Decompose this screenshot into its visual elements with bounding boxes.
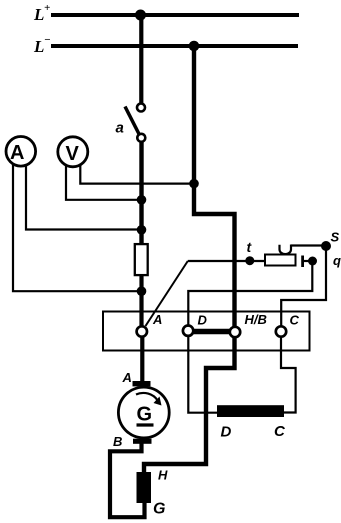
wire t line <box>188 260 265 262</box>
terminal board (clamp strip) <box>103 312 310 351</box>
clamp terminal D <box>183 326 193 336</box>
svg-text:q: q <box>333 253 341 268</box>
ammeter A <box>6 137 36 167</box>
bar D to H/B <box>192 329 230 335</box>
svg-text:C: C <box>274 423 286 440</box>
wire H/B down to element H <box>144 337 235 473</box>
svg-text:G: G <box>153 501 165 518</box>
svg-text:H: H <box>158 468 168 483</box>
resistor (starting resistor) <box>135 244 148 275</box>
element H-G (brake magnet) <box>137 472 152 503</box>
node t <box>245 256 254 265</box>
node S <box>321 241 331 251</box>
net L- label <box>33 34 51 56</box>
svg-text:−: − <box>44 34 51 46</box>
junction main line node 1 <box>137 195 147 205</box>
clamp terminal A <box>137 326 147 336</box>
contact q fixed bar <box>301 256 304 268</box>
wire L- bus <box>51 44 298 48</box>
svg-text:A: A <box>10 142 24 164</box>
clamp terminal H/B <box>230 327 240 337</box>
junction V wire / L- branch <box>189 179 199 189</box>
svg-text:G: G <box>137 404 153 426</box>
voltmeter V <box>58 137 88 167</box>
svg-text:A: A <box>122 370 132 385</box>
clamp terminal C <box>276 326 286 336</box>
svg-text:V: V <box>66 143 80 165</box>
wire switch to resistor <box>139 142 143 244</box>
svg-text:A: A <box>152 312 162 327</box>
svg-text:S: S <box>331 230 340 245</box>
wire clamp A to motor brush <box>140 336 144 382</box>
svg-text:H/B: H/B <box>245 312 267 327</box>
wire contact to clamp D <box>188 261 312 326</box>
wire L+ bus <box>51 13 299 17</box>
wire L- down right branch <box>194 46 235 327</box>
field winding D-C <box>217 405 284 417</box>
wire S to clamp C <box>281 246 326 326</box>
junction main line node 2 <box>137 225 147 235</box>
wire V right terminal to L- branch <box>80 165 194 184</box>
svg-text:D: D <box>198 313 208 328</box>
svg-text:L: L <box>33 5 44 24</box>
junction on L+ <box>135 10 146 21</box>
junction on L- <box>189 41 200 52</box>
wire motor B loop to element G <box>110 443 145 517</box>
switch a <box>116 104 146 142</box>
wire notch to S <box>291 244 326 246</box>
svg-text:D: D <box>221 424 232 441</box>
wire V left terminal to main line <box>66 165 142 200</box>
svg-text:L: L <box>33 37 44 56</box>
wire L+ to switch a <box>139 15 143 103</box>
svg-text:a: a <box>116 120 124 137</box>
wire resistor to clamp A <box>139 275 143 327</box>
net L+ label <box>33 2 50 24</box>
wire clamp C to field winding <box>281 337 296 413</box>
wire A left terminal to main line <box>13 164 142 291</box>
wire diagonal to clamp A <box>146 261 188 326</box>
motor G <box>113 370 169 449</box>
thermal release bimetal notch <box>280 245 292 255</box>
junction main line node 3 <box>137 286 147 296</box>
svg-text:+: + <box>44 2 50 14</box>
svg-text:B: B <box>113 434 122 449</box>
wire clamp D to field winding <box>188 336 217 413</box>
wire A right terminal to main line <box>26 164 142 230</box>
svg-text:C: C <box>290 313 300 328</box>
contact q moving contact <box>308 257 317 266</box>
thermal release heater <box>265 255 296 266</box>
